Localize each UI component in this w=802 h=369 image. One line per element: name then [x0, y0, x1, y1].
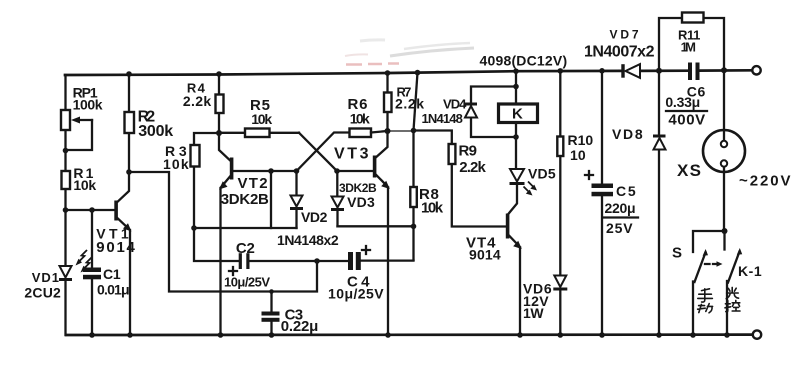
svg-text:2.2k: 2.2k [459, 159, 486, 176]
wire K branch [515, 71, 517, 104]
wire (VD2/R3 link) [194, 227, 297, 229]
node (VT2 base) [268, 168, 274, 174]
terminal (AC neutral, open circle) [753, 330, 761, 338]
ground rail junction dots [89, 332, 95, 338]
label shou-dong (manual) hand-drawn glyphs [698, 289, 713, 313]
wire [640, 69, 688, 72]
node (rail riser) [415, 70, 421, 76]
svg-text:VD2: VD2 [301, 209, 328, 225]
svg-text:3DK2B: 3DK2B [339, 181, 377, 195]
left branch vertical wire [64, 75, 66, 335]
switch S [693, 231, 725, 335]
node (R8 bottom / VD3) [411, 224, 417, 230]
wire R5 to VT3 base (cross) [299, 133, 337, 171]
diode VD3 [331, 171, 344, 226]
wire [515, 123, 517, 169]
node (R4 bottom / VT2 collector) [216, 130, 222, 136]
watermark smudges [345, 40, 474, 65]
svg-text:VD7: VD7 [610, 28, 639, 42]
svg-text:9014: 9014 [469, 247, 501, 263]
node (VT3 base) [334, 168, 340, 174]
resistor R1 [62, 171, 71, 189]
svg-text:4098(DC12V): 4098(DC12V) [480, 53, 567, 69]
node (K bottom / VD4) [513, 134, 519, 140]
svg-text:9014: 9014 [96, 239, 135, 256]
svg-text:1W: 1W [523, 305, 544, 321]
svg-text:K-1: K-1 [738, 263, 762, 279]
svg-text:R10: R10 [568, 132, 594, 148]
svg-text:K: K [512, 106, 523, 123]
switch K-1 (relay contact) [725, 231, 743, 335]
wire VT2 base down [270, 171, 272, 228]
capacitor C6 [688, 63, 700, 81]
resistor R2 [125, 74, 135, 172]
svg-text:400V: 400V [668, 112, 705, 129]
svg-text:2CU2: 2CU2 [24, 285, 61, 301]
svg-text:0.33μ: 0.33μ [665, 94, 699, 110]
wire [271, 170, 297, 172]
node (R2 bottom / VT1 collector) [126, 169, 132, 175]
svg-text:1N4148: 1N4148 [422, 111, 463, 126]
capacitor C2 [229, 253, 348, 275]
capacitor C4 [348, 246, 414, 270]
svg-text:1M: 1M [681, 40, 696, 55]
svg-text:1N4007x2: 1N4007x2 [584, 44, 655, 61]
node (C2/C4 mid, feedback) [314, 258, 320, 264]
svg-text:VD5: VD5 [528, 166, 556, 182]
svg-text:VT2: VT2 [238, 175, 268, 192]
diode VD2 [290, 171, 303, 228]
svg-text:300k: 300k [138, 123, 173, 140]
svg-text:3DK2B: 3DK2B [221, 191, 269, 208]
svg-text:2.2k: 2.2k [395, 96, 424, 112]
svg-text:10k: 10k [163, 156, 189, 172]
node (R7 bottom / VT3 collector) [385, 128, 391, 134]
svg-text:VD8: VD8 [612, 126, 643, 142]
node (RP1 wiper join) [63, 148, 69, 154]
svg-text:1N4148x2: 1N4148x2 [277, 232, 339, 248]
node (R1 bottom / VT1 base) [63, 207, 69, 213]
svg-text:220μ: 220μ [605, 200, 636, 216]
capacitor C1 [83, 210, 101, 335]
label guang-kong (light control) hand-drawn glyphs [725, 287, 740, 311]
thin link wire (collector node to R8 riser) [388, 130, 414, 132]
resistor R10 [557, 71, 563, 275]
svg-text:10k: 10k [350, 111, 370, 127]
svg-text:VD3: VD3 [347, 194, 375, 210]
resistor R8 [410, 131, 417, 260]
transistor VT1 [114, 172, 131, 335]
resistor R6 [350, 129, 388, 138]
svg-text:~220V: ~220V [739, 173, 790, 190]
relay K [499, 104, 538, 123]
svg-text:VD4: VD4 [443, 97, 467, 112]
wire (VD3 to R8 bottom) [338, 225, 414, 227]
svg-text:25V: 25V [606, 220, 633, 236]
socket XS [703, 70, 745, 231]
svg-text:VT3: VT3 [334, 146, 369, 163]
node (K branch on rail) [513, 68, 519, 74]
node (VD4 top tap) [513, 84, 519, 90]
wire R6 to VT2 base (cross) [297, 133, 350, 172]
terminal (AC live, open circle) [752, 66, 760, 74]
node (after VD7 / R11 branch) [656, 68, 662, 74]
capacitor C5 [585, 71, 613, 335]
svg-text:C5: C5 [616, 183, 636, 199]
svg-text:10k: 10k [251, 111, 272, 127]
LED VD5 [510, 169, 538, 196]
svg-text:10k: 10k [421, 200, 444, 217]
potentiometer RP1 [61, 110, 92, 150]
svg-text:100k: 100k [73, 97, 103, 113]
svg-text:VD1: VD1 [32, 270, 59, 285]
svg-text:2.2k: 2.2k [183, 93, 212, 109]
node (R3 bottom) [191, 225, 197, 231]
diode VD8 [653, 71, 666, 335]
svg-text:10μ/25V: 10μ/25V [224, 275, 270, 290]
svg-text:0.22μ: 0.22μ [281, 318, 318, 335]
capacitor C3 [262, 289, 280, 335]
resistor R11 [659, 13, 724, 71]
wire rail riser to R8/R9 [414, 73, 418, 131]
top supply rail [65, 71, 622, 75]
photodiode VD1 [59, 250, 92, 281]
wire R3 to C2 [194, 228, 239, 261]
node (R8 top) [411, 128, 417, 134]
node (switch junction) [722, 228, 728, 234]
svg-text:10k: 10k [73, 177, 96, 193]
node (C5 top on rail) [599, 68, 605, 74]
node (R10 top on rail) [558, 68, 564, 74]
svg-text:0.01μ: 0.01μ [97, 282, 129, 298]
diode VD7 [621, 64, 640, 78]
resistor R7 [384, 73, 392, 131]
node (VD2 top) [294, 168, 300, 174]
node (R2 top on rail) [126, 71, 132, 77]
resistor R9 [414, 131, 507, 227]
svg-text:S: S [672, 245, 682, 262]
mechanical link dashes [705, 263, 716, 265]
transistor VT2 [219, 133, 271, 335]
bottom ground rail [66, 333, 753, 336]
node (R11/XS junction on rail) [721, 67, 727, 73]
transistor VT3 [337, 131, 390, 335]
transistor VT4 [506, 185, 522, 335]
node (rail / R4) [216, 71, 222, 77]
svg-text:10: 10 [570, 147, 586, 163]
svg-text:XS: XS [677, 161, 701, 180]
svg-text:10μ/25V: 10μ/25V [328, 286, 384, 302]
svg-text:C1: C1 [103, 266, 121, 282]
resistor R4 [216, 74, 224, 133]
wire feedback from VT1 collector to C2/C4 node [129, 172, 317, 292]
node (R7 top on rail) [385, 70, 391, 76]
resistor R3 [191, 133, 220, 228]
zener VD6 [553, 276, 567, 336]
svg-text:C2: C2 [236, 240, 255, 257]
wire VT1 base [66, 209, 114, 211]
svg-text:R9: R9 [459, 143, 477, 160]
wire [700, 69, 753, 72]
node (C1 top) [89, 207, 95, 213]
diode VD4 [465, 87, 516, 138]
resistor R5 [219, 129, 299, 138]
